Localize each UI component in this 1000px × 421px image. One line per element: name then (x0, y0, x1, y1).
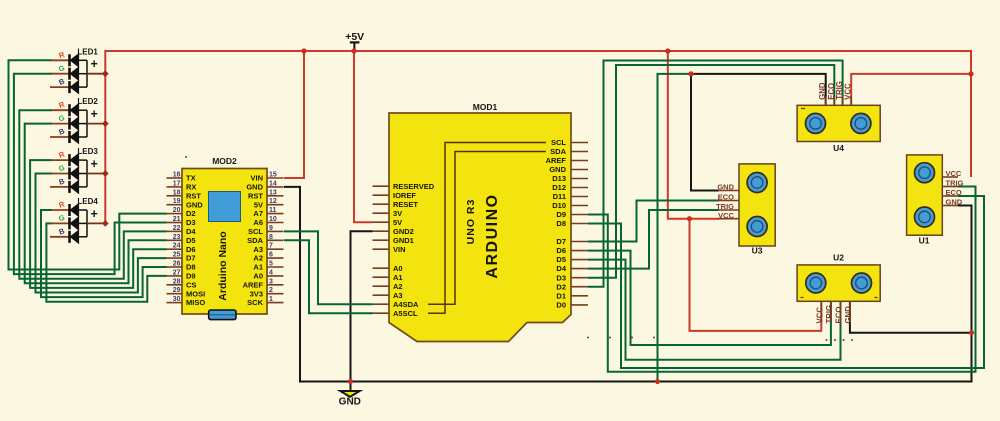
svg-text:A1: A1 (253, 263, 263, 272)
svg-text:TRIG: TRIG (946, 179, 964, 188)
svg-text:LED3: LED3 (77, 147, 98, 156)
svg-text:D9: D9 (556, 210, 566, 219)
wire MOD1 D7 to U3 ECO (588, 201, 719, 242)
svg-text:VCC: VCC (946, 169, 962, 178)
Arduino Uno MOD1 (373, 102, 589, 342)
svg-text:GND2: GND2 (393, 227, 414, 236)
junction node U4/U1 VCC (968, 71, 973, 76)
wire MOD1 D3 to U4 ECO (588, 65, 834, 278)
svg-text:5V: 5V (393, 218, 402, 227)
svg-text:LED1: LED1 (77, 47, 98, 56)
svg-text:GND: GND (717, 183, 734, 192)
svg-text:25: 25 (173, 252, 181, 259)
wire MOD1 GND2 to ground (351, 231, 373, 381)
wire MOD1 D8 to U1 ECO (588, 196, 984, 368)
wire U2 VCC riser (690, 219, 822, 331)
svg-text:U4: U4 (833, 143, 844, 153)
svg-text:20: 20 (173, 207, 181, 214)
svg-text:11: 11 (269, 207, 277, 214)
svg-text:+: + (91, 207, 98, 221)
svg-text:ARDUINO: ARDUINO (484, 193, 501, 278)
svg-text:D8: D8 (186, 263, 196, 272)
svg-text:A3: A3 (393, 291, 403, 300)
wire +5V to MOD2 VIN pin (284, 51, 304, 178)
wire MOD1 D9 to U1 TRIG (588, 187, 976, 372)
RGB LED LED4 (50, 197, 105, 243)
wire LED1 G to MOD2 D3 (14, 74, 167, 274)
svg-text:A2: A2 (253, 254, 263, 263)
svg-text:ECO: ECO (835, 307, 844, 324)
svg-text:30: 30 (173, 296, 181, 303)
svg-text:U1: U1 (919, 236, 930, 246)
svg-text:D3: D3 (556, 273, 566, 282)
svg-text:28: 28 (173, 278, 181, 285)
wire LED1 R to MOD2 D2 (9, 60, 167, 269)
svg-text:29: 29 (173, 287, 181, 294)
svg-text:3: 3 (269, 278, 273, 285)
svg-text:D4: D4 (186, 227, 196, 236)
svg-text:VCC: VCC (718, 211, 734, 220)
svg-text:U3: U3 (752, 246, 763, 256)
svg-text:15: 15 (269, 172, 277, 179)
svg-text:A1: A1 (393, 273, 403, 282)
svg-text:CS: CS (186, 280, 196, 289)
svg-text:TRIG: TRIG (825, 305, 834, 324)
svg-text:18: 18 (173, 189, 181, 196)
svg-text:IOREF: IOREF (393, 191, 416, 200)
svg-text:ECO: ECO (946, 188, 962, 197)
svg-text:GND: GND (549, 165, 566, 174)
svg-text:A6: A6 (253, 218, 263, 227)
ultrasonic sensor U4 (797, 81, 880, 153)
svg-text:VCC: VCC (816, 307, 825, 324)
wire LED4 R to MOD2 D8 (41, 210, 167, 297)
svg-text:D12: D12 (552, 183, 566, 192)
svg-text:MISO: MISO (186, 298, 205, 307)
svg-text:D9: D9 (186, 272, 196, 281)
svg-text:3V3: 3V3 (250, 289, 263, 298)
svg-text:26: 26 (173, 261, 181, 268)
svg-text:GND: GND (186, 200, 203, 209)
junction node +5V/VIN (301, 48, 306, 53)
svg-text:AREF: AREF (546, 156, 567, 165)
svg-text:VIN: VIN (393, 245, 406, 254)
svg-text:Arduino Nano: Arduino Nano (217, 231, 229, 300)
svg-text:A7: A7 (253, 209, 263, 218)
svg-text:MOD1: MOD1 (473, 102, 498, 112)
svg-text:+: + (91, 107, 98, 121)
svg-text:ECO: ECO (718, 193, 734, 202)
svg-text:17: 17 (173, 180, 181, 187)
svg-text:SCL: SCL (551, 138, 566, 147)
svg-text:10: 10 (269, 216, 277, 223)
junction node U2 VCC (687, 216, 692, 221)
svg-text:5V: 5V (254, 200, 263, 209)
svg-text:2: 2 (269, 287, 273, 294)
RGB LED LED3 (50, 147, 105, 193)
svg-text:A5SCL: A5SCL (393, 309, 418, 318)
svg-text:24: 24 (173, 243, 181, 250)
+5V power rail top bus wire (105, 51, 971, 223)
RGB LED LED2 (50, 97, 105, 143)
svg-text:7: 7 (269, 243, 273, 250)
svg-text:SDA: SDA (247, 236, 263, 245)
svg-text:D0: D0 (556, 301, 566, 310)
wire MOD1 D6 to U2 TRIG (588, 251, 831, 345)
wire LED4 G to MOD2 D9 (46, 223, 166, 301)
svg-text:RST: RST (248, 191, 263, 200)
wire LED3 G to MOD2 D7 (36, 174, 167, 293)
svg-text:GND: GND (339, 397, 361, 408)
junction node GND symbol (348, 379, 353, 384)
ultrasonic sensor U2 (587, 253, 880, 342)
svg-text:D5: D5 (556, 255, 566, 264)
svg-text:RESERVED: RESERVED (393, 182, 435, 191)
junction node +5V stem (351, 48, 356, 53)
svg-text:VIN: VIN (250, 174, 263, 183)
wire MOD1 D4 to U3 TRIG (588, 210, 719, 269)
ultrasonic sensor U1 (907, 155, 964, 246)
svg-text:D6: D6 (186, 245, 196, 254)
svg-text:AREF: AREF (243, 280, 264, 289)
junction node U3/U4 GND (688, 71, 693, 76)
GND bottom bus wire (284, 187, 972, 382)
svg-text:A4SDA: A4SDA (393, 300, 419, 309)
svg-text:RX: RX (186, 183, 196, 192)
svg-text:9: 9 (269, 225, 273, 232)
svg-text:RST: RST (186, 191, 201, 200)
svg-text:SDA: SDA (550, 147, 566, 156)
wire LED3 R to MOD2 D6 (30, 160, 166, 288)
junction node GND green (655, 379, 660, 384)
svg-text:13: 13 (269, 189, 277, 196)
svg-text:TX: TX (186, 174, 196, 183)
wire LED2 R to MOD2 D4 (19, 110, 166, 279)
ground symbol (339, 382, 361, 408)
svg-text:GND: GND (844, 306, 853, 324)
junction node +5V/U3 (665, 48, 670, 53)
+5V symbol (345, 31, 364, 50)
internal SDA-A4SDA link (428, 152, 546, 305)
junction node U2/U1 GND (969, 330, 974, 335)
svg-text:12: 12 (269, 198, 277, 205)
svg-text:UNO R3: UNO R3 (465, 199, 477, 245)
svg-text:23: 23 (173, 234, 181, 241)
svg-text:D1: D1 (556, 291, 566, 300)
svg-text:D8: D8 (556, 219, 566, 228)
svg-text:6: 6 (269, 252, 273, 259)
svg-text:SCK: SCK (247, 298, 263, 307)
junction node LED3 anode (102, 170, 109, 177)
svg-text:D5: D5 (186, 236, 196, 245)
ultrasonic sensor U3 (716, 164, 775, 256)
svg-text:4: 4 (269, 269, 273, 276)
svg-text:GND: GND (946, 198, 963, 207)
svg-text:SCL: SCL (248, 227, 263, 236)
svg-text:+: + (91, 157, 98, 171)
wire +5V branch to U3/U2 VCC (668, 51, 719, 219)
svg-text:14: 14 (269, 180, 277, 187)
svg-text:16: 16 (173, 172, 181, 179)
svg-text:+5V: +5V (345, 31, 364, 43)
wire +5V to MOD1 5V pin (354, 51, 373, 222)
wire MOD1 D2 to U4 TRIG (588, 61, 843, 287)
svg-text:19: 19 (173, 198, 181, 205)
svg-text:D13: D13 (552, 174, 566, 183)
svg-text:A0: A0 (393, 264, 403, 273)
internal SCL-A5SCL link (428, 143, 546, 314)
svg-text:D11: D11 (553, 192, 566, 201)
svg-text:A2: A2 (393, 282, 403, 291)
svg-text:LED2: LED2 (77, 97, 98, 106)
svg-text:GND: GND (246, 183, 263, 192)
svg-text:D3: D3 (186, 218, 196, 227)
svg-text:27: 27 (173, 269, 181, 276)
svg-text:MOD2: MOD2 (212, 156, 237, 166)
Arduino Nano MOD2 (167, 156, 284, 320)
svg-text:D2: D2 (186, 209, 196, 218)
svg-text:1: 1 (269, 296, 273, 303)
wire U4 GND / U3 GND black net (691, 74, 826, 105)
svg-text:D2: D2 (556, 282, 566, 291)
svg-text:MOSI: MOSI (186, 289, 205, 298)
junction node LED2 anode (102, 120, 109, 127)
svg-text:RESET: RESET (393, 200, 418, 209)
svg-text:A3: A3 (253, 245, 263, 254)
svg-text:+: + (91, 57, 98, 71)
svg-text:22: 22 (173, 225, 181, 232)
svg-text:5: 5 (269, 261, 273, 268)
wire LED2 G to MOD2 D5 (25, 124, 167, 284)
svg-text:8: 8 (269, 234, 273, 241)
junction node LED1 anode (102, 70, 109, 77)
svg-text:U2: U2 (833, 253, 844, 263)
svg-text:D4: D4 (556, 264, 566, 273)
wire MOD2 SCL to MOD1 A4SDA (284, 231, 373, 304)
wire MOD1 D5 to U2 ECO (588, 260, 841, 360)
svg-text:D7: D7 (556, 237, 566, 246)
grid dot near MOD2 (185, 156, 187, 158)
svg-text:D6: D6 (556, 246, 566, 255)
svg-text:VCC: VCC (844, 83, 853, 100)
svg-text:LED4: LED4 (77, 197, 98, 206)
wire U2 GND (850, 301, 972, 332)
wire MOD2 SDA to MOD1 A5SCL (284, 240, 373, 313)
svg-text:D10: D10 (552, 201, 566, 210)
svg-text:A0: A0 (253, 272, 263, 281)
junction node LED4 anode (102, 220, 109, 227)
svg-text:21: 21 (173, 216, 181, 223)
wire U4 VCC branch (851, 74, 971, 105)
wire green link of GND net to bus (658, 74, 692, 382)
svg-text:D7: D7 (186, 254, 196, 263)
svg-text:3V: 3V (393, 209, 402, 218)
svg-text:TRIG: TRIG (716, 202, 734, 211)
RGB LED LED1 (50, 47, 105, 93)
svg-text:GND1: GND1 (393, 236, 414, 245)
